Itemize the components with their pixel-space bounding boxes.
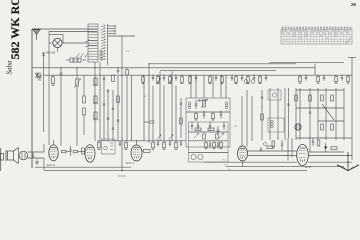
capacitor C60 [260,147,262,151]
switch S1 wiper contacts [101,25,106,61]
wire column 288 [288,88,290,138]
resistor R26 [195,128,201,131]
transformer can T5 [268,90,281,100]
IF can V3 box [102,139,116,154]
tube socket circle A [191,154,196,159]
resistor R45 [331,124,334,130]
resistor R34 [261,114,264,120]
capacitor C22 [220,111,222,119]
resistor R2 [142,75,145,84]
wire left border [31,29,33,168]
wire rail D drops [160,71,172,141]
coil pack L1 windings [88,24,98,62]
capacitor C41 [287,104,289,105]
resistor R24 [213,141,216,149]
paper background [0,0,360,180]
antenna A1 [33,29,41,40]
resistor R4 [169,75,172,84]
capacitor C16 [180,141,182,147]
resistor R21 [195,112,198,120]
svg-text:ECH 11: ECH 11 [126,162,135,165]
wire HT bus A [32,64,315,75]
capacitor C7 [241,75,243,81]
junction dots bus A [60,63,149,68]
trimmer T8 [263,142,266,145]
resistor chain under coil [93,78,99,120]
resistor R27 [208,128,214,131]
wire bottom rail 1 [35,166,131,168]
capacitor C61 [281,140,283,150]
capacitor C63 [312,138,314,146]
wire rail C [149,64,296,143]
tube socket circle B [198,154,203,159]
pot P1 [144,120,154,124]
junction dot rail2 [121,170,122,171]
resistor R6 [189,75,192,84]
wire coil drop A [94,62,96,141]
wire output rail 3 [226,166,344,168]
IF can inner box [189,122,229,162]
wire V3 links [66,151,85,153]
resistor R24 [163,141,166,150]
wire V4 top lead [136,140,138,145]
resistor R2 variable [74,68,81,89]
wire column E [112,90,114,141]
capacitor C24 [217,141,219,149]
wire contact taps [108,25,116,34]
wire output rail 2 [204,161,352,163]
arrow mark A6 [168,78,173,84]
wire top rail A [32,28,97,30]
wire speaker leads [28,144,44,170]
resistor R28 [144,150,151,153]
coil L5 [271,120,274,128]
switch arrows SB [85,40,97,47]
resistor R3 [83,96,86,103]
coil L2 [100,50,102,60]
capacitor C36 [117,68,119,74]
wire IF internal rail [186,111,230,113]
arrow mark A2 [219,133,224,139]
IF inner parts [189,132,229,153]
resistor R25 [175,141,178,150]
junction star J2 [42,52,45,57]
capacitor C15 [169,141,171,147]
capacitor C14 [157,141,159,147]
wire C62 leads [325,143,327,152]
wire V6 grid rail [309,151,344,153]
junction dot 262 [261,106,262,107]
resistor R41 [309,95,312,101]
tube V4 ECH11b [126,145,142,165]
antenna A2 dipole top [348,58,356,161]
capacitor C21 [203,111,205,119]
resistor R3 [157,75,160,84]
capacitor C6 [231,75,233,81]
capacitor C35 [180,103,182,104]
table header text [282,27,352,29]
junction dot ground [347,155,348,156]
tube V7 small [295,124,301,130]
capacitor C12 [341,75,343,81]
resistor R1 [52,75,55,85]
arrow mark A3 [157,135,162,141]
resistor R15 [347,75,350,83]
resistor R50 [62,150,67,152]
arrow mark A5 [156,78,161,84]
trimmer T1 [244,80,248,84]
wire lead extensions [153,86,176,141]
svg-text:ECH 11: ECH 11 [47,164,56,167]
arrow mark A4 [169,135,174,141]
resistor R23 [205,141,208,149]
resistor R9 [235,75,238,84]
resistor R43 [331,95,334,101]
wire top right lead [270,62,344,64]
resistor R51 [73,150,78,152]
junction dot ground2 [347,162,348,163]
capacitor C4 [195,75,197,81]
resistor R12 [299,75,302,83]
wire column 262 [261,90,263,140]
wire right verticals low [288,138,292,161]
capacitor C51 [69,146,71,156]
wire V5 right rail [248,150,297,152]
capacitor C2 [163,75,165,81]
resistor group RA [66,58,86,62]
resistor R13 [317,75,320,83]
ground chassis main [337,152,359,171]
wire diagonal feedback [322,104,334,120]
resistor R40 [295,95,298,101]
coil voltage table [281,30,352,45]
wire oscillator feed [108,35,134,37]
capacitor C50 across [32,152,34,158]
capacitor C3 [175,75,177,81]
coil L4 [225,102,227,109]
transformer T7 output [19,151,28,160]
trimmer T2 [251,80,255,84]
coil L6 in T5 [272,93,276,97]
resistor R14 [335,75,338,83]
wire column D [107,90,109,141]
wire column J [43,52,45,132]
wire column 118 [117,76,119,141]
wire top rail B [49,31,97,33]
capacitor C40 [309,112,311,113]
wire bottom mid rail [97,140,186,142]
wire center risers [191,75,226,98]
tube V2 ECH11 [47,145,58,167]
switch contact row SA [77,53,88,57]
capacitor row inner [191,122,225,130]
svg-text:4,5V: 4,5V [224,165,229,167]
resistor R62 [331,147,337,150]
capacitor group mid-left [103,78,119,129]
junction arrow node K [35,72,39,79]
capacitor C20 [195,100,198,109]
capacitor C1a trim [38,72,43,81]
capacitor C10 [305,75,307,81]
tube V3 EBF11 [85,145,95,163]
resistor R4 [83,108,86,115]
table x marks [282,30,352,43]
capacitor C1 [152,75,154,81]
svg-text:Saba: Saba [6,60,14,75]
wire column F [83,75,85,96]
IF can outer box [186,98,230,147]
capacitor C9 [265,75,267,81]
resistor R35 [180,118,183,124]
wire long vertical from switch [121,36,123,171]
capacitor C11 [323,75,325,81]
resistor R38 [117,96,120,103]
capacitor C13 [119,141,121,147]
arrow mark A1 [194,133,199,139]
wire output rail 1 [248,155,352,157]
resistor R10 [247,75,250,84]
svg-text:1M: 1M [143,96,146,98]
wire HT bus B [44,74,352,76]
wire bottom rail 2 [44,170,307,172]
capacitor C2 [60,68,63,78]
tube V6 EL11 [297,145,312,170]
resistor R21 [98,141,101,150]
tube V1 indicator [53,38,62,47]
transformer can T6 [268,118,284,132]
wire V2 top lead [53,140,55,145]
wire V1 loop [49,35,88,53]
resistor R22 [212,112,215,120]
resistor R7 [209,75,212,84]
ground G1 [35,158,39,164]
wire switch common [107,24,109,65]
capacitor C23 [209,141,211,149]
capacitor C8 [253,75,255,81]
wire can drops [242,90,252,147]
resistor R52 [82,148,85,154]
resistor R36 [126,68,129,141]
speaker LS [6,148,19,164]
svg-text:588 005: 588 005 [46,51,56,55]
resistor R22 [125,141,128,150]
resistor R29a [203,134,206,139]
resistor R63 [317,140,320,146]
wire right mid rails [296,90,352,138]
electrolytic C62 [324,147,327,150]
capacitor C30 [261,97,263,98]
wire coil drop B [99,62,101,141]
wire column 144 [143,75,145,141]
wire V5 bottom leads [242,161,244,167]
wire column 131 [131,75,133,141]
resistor R29b [216,134,219,139]
resistor R60 [267,146,273,149]
resistor R25 [220,141,223,149]
capacitor C25 [217,126,220,135]
wire right risers [270,88,344,152]
svg-text:582 WK RO: 582 WK RO [8,0,22,60]
resistor R8 [221,75,224,84]
coil L3 [188,102,190,109]
resistor R44 [321,124,324,130]
tube V5 EBF11b [238,146,248,161]
resistor R11 [259,75,262,84]
capacitor C5 [215,75,217,81]
wire column C [76,89,78,146]
wire column 181 [180,98,182,138]
wire rail D [160,70,276,72]
resistor R23 [152,141,155,150]
resistor R61 [272,141,275,147]
wire V2 anode drop [48,32,50,146]
resistor R5 [181,75,184,84]
resistor R20 variable [201,99,208,108]
wire column B [60,78,62,146]
resistor R42 [321,95,324,101]
svg-text:26: 26 [351,2,357,7]
speaker terminal edge [0,148,4,171]
resistor R37 [112,75,115,82]
wire column 104 [103,76,105,141]
svg-text:582WK: 582WK [118,175,126,178]
